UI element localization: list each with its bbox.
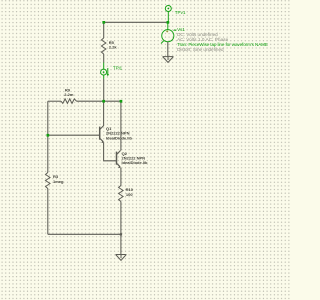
- label R10 value 100: [126, 187, 134, 197]
- ground under Vs1: [163, 57, 174, 63]
- wire Q2 emitter to R10: [120, 168, 122, 186]
- node top-left end: [102, 21, 105, 24]
- wire mid rail right segment: [104, 100, 121, 102]
- wire Q1 emitter to Q2 base: [104, 143, 117, 161]
- label R9 value 2.2m: [64, 88, 74, 97]
- wire Q1 collector: [100, 101, 104, 129]
- resistor R5: [101, 38, 106, 54]
- node top-right junction: [167, 21, 170, 24]
- wire Q1 base: [48, 134, 100, 136]
- test point TPi1: [101, 63, 109, 80]
- wire R3 to bottom rail: [47, 189, 49, 235]
- svg-text:Distort: Sine undefined: Distort: Sine undefined: [177, 47, 224, 52]
- wire R9 to junction: [77, 100, 104, 102]
- wire from top rail to R5: [103, 22, 105, 38]
- wire Q2 collector to mid rail: [120, 101, 122, 150]
- Vs1 polarity plus: [166, 30, 168, 32]
- node mid junction A: [102, 100, 105, 103]
- voltage source Vs1: [161, 22, 176, 43]
- wire R10 to ground: [120, 202, 122, 255]
- label Q2 2N2222 NPN IdealDiode.lib: [122, 151, 149, 165]
- wire bottom rail: [48, 233, 121, 235]
- svg-text:2.2k: 2.2k: [109, 44, 118, 49]
- svg-text:IdealDiode.lib: IdealDiode.lib: [106, 135, 133, 140]
- svg-text:IdealDiode.lib: IdealDiode.lib: [122, 160, 149, 165]
- node T-junction bottom: [120, 233, 122, 235]
- transistor Q2: [117, 151, 121, 169]
- svg-text:100: 100: [126, 192, 133, 197]
- wire left branch down: [47, 101, 49, 172]
- label R3 value 1meg: [53, 174, 64, 184]
- resistor R10: [119, 186, 124, 202]
- resistor R3: [46, 173, 51, 189]
- wire R5 to TPi1: [103, 54, 105, 63]
- transistor Q1: [100, 127, 104, 144]
- node Q1 base tap: [47, 134, 50, 137]
- wire mid rail left segment: [48, 100, 61, 102]
- wire top rail: [104, 21, 168, 23]
- test point TPv1: [165, 6, 171, 23]
- wire TPi1 to mid rail: [103, 79, 105, 101]
- label Q1 2N2222 NPN IdealDiode.lib: [106, 126, 133, 141]
- svg-text:Vs1: Vs1: [177, 27, 185, 32]
- resistor R9: [61, 99, 77, 104]
- svg-text:1meg: 1meg: [53, 179, 64, 184]
- label R5 value 2.2k: [109, 40, 118, 49]
- svg-text:TPi1: TPi1: [113, 66, 123, 71]
- wire Vs1 to ground: [167, 42, 169, 57]
- svg-text:TPv1: TPv1: [175, 10, 186, 15]
- ground bottom: [116, 255, 127, 261]
- node mid corner B: [120, 100, 123, 103]
- svg-text:2.2m: 2.2m: [64, 92, 74, 97]
